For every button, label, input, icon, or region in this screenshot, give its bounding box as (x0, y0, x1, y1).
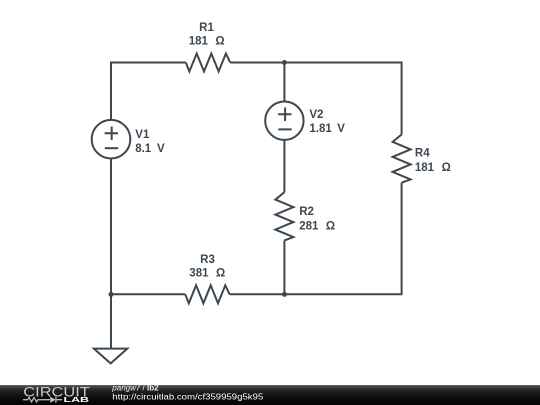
svg-text:LAB: LAB (64, 397, 90, 404)
wire bottom-left: from R3 left lead to left node (111, 293, 185, 295)
V1 plus sign (105, 127, 118, 141)
voltage source V2 circle (265, 102, 303, 140)
ground symbol (94, 349, 127, 364)
node junction bottom-left (109, 292, 114, 297)
node junction top (V2 branch) (282, 60, 287, 65)
V1 minus sign (105, 147, 118, 149)
svg-text:V1: V1 (135, 129, 150, 141)
svg-text:R2: R2 (299, 206, 314, 218)
voltage source V1 circle (92, 120, 131, 159)
svg-text:181Ω: 181Ω (189, 36, 225, 48)
wire V2 to R2 (283, 140, 285, 192)
node junction bottom (R2 branch) (282, 292, 287, 297)
resistor R3 (185, 285, 229, 303)
wire ground stub (110, 294, 112, 348)
svg-text:R1: R1 (199, 22, 214, 34)
wire top-right: from R1 right lead to top-right corner down to R4 (230, 63, 401, 135)
wire R2 to bottom node (283, 240, 285, 294)
svg-text:381Ω: 381Ω (189, 268, 225, 280)
svg-text:181Ω: 181Ω (415, 162, 451, 174)
svg-text:1.81V: 1.81V (309, 123, 345, 135)
svg-text:V2: V2 (309, 109, 323, 121)
resistor R2 (275, 192, 293, 240)
resistor R4 (393, 135, 411, 183)
resistor R1 (186, 54, 230, 72)
footer bar (0, 385, 540, 405)
V2 plus sign (278, 108, 291, 122)
wire top-left: from top-left corner to R1 left lead (111, 63, 186, 120)
svg-text:281Ω: 281Ω (299, 220, 335, 232)
logo resistor squiggle (23, 398, 50, 402)
wire left-bottom: V1 bottom to bottom-left node (110, 159, 112, 295)
svg-text:pangw7 / lb2: pangw7 / lb2 (111, 383, 159, 392)
logo diode symbol (50, 397, 55, 403)
svg-text:8.1V: 8.1V (135, 143, 165, 155)
svg-text:http://circuitlab.com/cf359959: http://circuitlab.com/cf359959g5k95 (112, 392, 264, 401)
wire right-bottom: from R4 bottom to bottom-right corner to R3 right lead (230, 183, 402, 295)
svg-text:R4: R4 (415, 148, 430, 160)
V2 minus sign (278, 128, 291, 130)
svg-text:R3: R3 (200, 254, 215, 266)
wire V2 stub: top node down to V2 circle (283, 63, 285, 102)
